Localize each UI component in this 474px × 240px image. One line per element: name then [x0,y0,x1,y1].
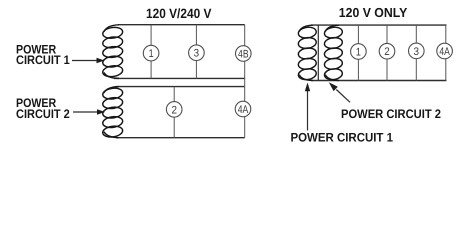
arrow from POWER CIRCUIT 1 to coil 1 [72,58,105,64]
svg-text:3: 3 [414,46,420,58]
terminal 4A [235,101,251,117]
svg-text:POWER CIRCUIT 2: POWER CIRCUIT 2 [341,107,441,121]
svg-text:POWER CIRCUIT 1: POWER CIRCUIT 1 [291,131,394,145]
wire bottom rail right diagram [311,80,447,82]
wire lower middle rail left diagram [116,86,245,88]
terminal 4B [236,46,252,62]
svg-text:CIRCUIT 2: CIRCUIT 2 [16,107,70,121]
wire right edge vertical left diagram [244,25,246,138]
winding coil 2 left diagram (power circuit 2) [102,87,123,139]
winding coil 1 right diagram (power circuit 1) [298,25,317,81]
wire terminal 1 drop [150,25,152,79]
arrow from POWER CIRCUIT 2 to coil 2 [73,109,105,115]
terminal 2 right diagram [379,43,395,59]
wire terminal 2 drop right diagram [386,25,388,80]
svg-text:2: 2 [384,46,390,58]
winding coil 2 right diagram (power circuit 2) [324,25,343,81]
wire terminal 3 drop [195,25,197,79]
wire top rail right diagram [311,24,447,26]
wire between coils right diagram [317,25,319,80]
svg-text:1: 1 [149,48,154,60]
terminal 3 right diagram [409,43,425,59]
arrow from POWER CIRCUIT 1 to coil 1 right diagram [305,83,310,131]
terminal 1 right diagram [351,44,367,60]
winding coil 1 left diagram (power circuit 1) [102,25,123,79]
svg-text:CIRCUIT 1: CIRCUIT 1 [16,53,70,67]
terminal 4A right diagram [437,43,453,59]
wire terminal 1 drop right diagram [357,25,359,80]
svg-text:1: 1 [356,47,361,59]
svg-text:4A: 4A [439,46,450,58]
label POWER CIRCUIT 2 (left) [16,96,70,121]
wire right edge vertical right diagram [445,25,447,80]
terminal 2 [166,102,182,118]
wire terminal 2 drop [173,87,175,138]
wire terminal 3 drop right diagram [415,25,417,80]
svg-text:4B: 4B [238,49,249,61]
arrow from POWER CIRCUIT 2 to coil 2 right diagram [329,82,350,102]
terminal 1 [143,45,159,61]
wire top rail left diagram [118,24,245,26]
terminal 3 [189,45,205,61]
svg-text:3: 3 [194,48,200,60]
label POWER CIRCUIT 1 (left) [16,42,70,67]
wire bottom rail left diagram [116,137,245,139]
wire upper middle rail left diagram [114,77,245,79]
svg-text:120 V/240 V: 120 V/240 V [146,6,211,21]
svg-text:2: 2 [171,104,177,116]
svg-text:120 V ONLY: 120 V ONLY [339,5,408,20]
svg-text:4A: 4A [238,104,249,116]
